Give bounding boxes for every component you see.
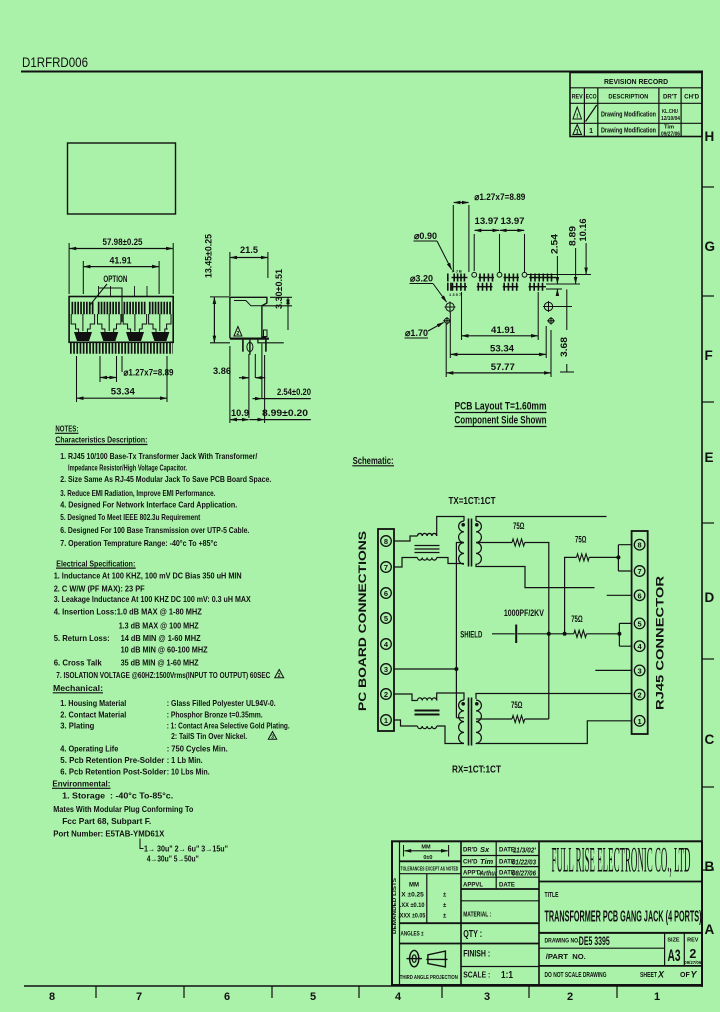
- svg-text:CH'D: CH'D: [684, 94, 699, 101]
- svg-text:7. ISOLATION VOLTAGE @60HZ:150: 7. ISOLATION VOLTAGE @60HZ:1500Vrms(INPU…: [56, 670, 270, 680]
- mounting holes right: [544, 302, 552, 310]
- dim 1.27x7 arrows: [100, 377, 116, 379]
- svg-text:APP'D: APP'D: [463, 871, 482, 877]
- transformer T1 secondary: [476, 521, 481, 564]
- port 4: [149, 308, 171, 341]
- title block frame: [392, 841, 702, 985]
- svg-text:75Ω: 75Ω: [571, 614, 583, 624]
- svg-text:1.3 dB MAX @ 100 MHZ: 1.3 dB MAX @ 100 MHZ: [119, 621, 199, 631]
- svg-text:Component Side Shown: Component Side Shown: [455, 415, 547, 427]
- svg-text:RJ45 CONNECTOR: RJ45 CONNECTOR: [655, 576, 667, 710]
- svg-text:6. Designed For 100 Base Trans: 6. Designed For 100 Base Transmission ov…: [60, 525, 249, 535]
- svg-text:11/3/02': 11/3/02': [513, 846, 536, 855]
- J2 pin 6: [634, 590, 645, 601]
- resistor R3 75ohm: [574, 630, 587, 637]
- svg-text:Tim: Tim: [664, 125, 674, 131]
- svg-text:Drawing Modification: Drawing Modification: [601, 128, 656, 135]
- svg-text:MM: MM: [421, 844, 431, 850]
- J2 pin 5: [634, 618, 645, 629]
- wire L1 to T1 primary top: [437, 517, 464, 537]
- plating legend: [140, 839, 144, 849]
- svg-text:2.54±0.20: 2.54±0.20: [277, 387, 311, 397]
- J1 pin 8: [381, 536, 392, 547]
- transformer T1 primary: [459, 521, 464, 564]
- pin field bottom row: [451, 286, 547, 288]
- svg-text:: Phosphor Bronze t=0.35mm.: : Phosphor Bronze t=0.35mm.: [167, 709, 263, 719]
- svg-text:1: 1: [589, 128, 593, 135]
- resistor R1 75ohm: [512, 539, 525, 546]
- svg-text:6: 6: [384, 589, 388, 598]
- transformer T2 secondary: [476, 700, 481, 743]
- svg-text:Drawing Modification: Drawing Modification: [601, 112, 656, 119]
- svg-text:10.16: 10.16: [578, 219, 588, 242]
- wire L2 to T2 primary top: [437, 693, 464, 701]
- shield pin extra marks left: [448, 274, 451, 291]
- svg-text:THIRD ANGLE PROJECTION: THIRD ANGLE PROJECTION: [400, 975, 458, 981]
- port 2: [98, 308, 121, 341]
- svg-text:: Glass Filled Polyester UL94V: : Glass Filled Polyester UL94V-0.: [167, 698, 276, 708]
- svg-text:57.77: 57.77: [491, 362, 515, 373]
- svg-text:REV: REV: [572, 94, 584, 101]
- body outline: [230, 297, 267, 337]
- svg-text:0±0: 0±0: [423, 855, 432, 861]
- svg-text:Fcc Part 68, Subpart F.: Fcc Part 68, Subpart F.: [62, 816, 151, 826]
- svg-text:1 3 5 7: 1 3 5 7: [449, 292, 462, 297]
- jack body outline: [69, 297, 173, 343]
- svg-text:1. Housing Material: 1. Housing Material: [60, 698, 126, 708]
- choke L2 core: [415, 711, 440, 715]
- svg-text:5. Designed To Meet IEEE 802.3: 5. Designed To Meet IEEE 802.3u Requirem…: [60, 512, 200, 522]
- svg-text:CH'D: CH'D: [463, 860, 478, 866]
- svg-text:DO NOT SCALE DRAWING: DO NOT SCALE DRAWING: [545, 972, 607, 979]
- svg-text:B: B: [705, 859, 715, 874]
- svg-text:2. Contact Material: 2. Contact Material: [60, 709, 126, 719]
- svg-text:1000PF/2KV: 1000PF/2KV: [504, 608, 544, 618]
- hole circles top row: [472, 272, 477, 277]
- svg-text:Tim: Tim: [480, 857, 494, 866]
- revision record table: [570, 73, 702, 138]
- svg-text:.XX ±0.10: .XX ±0.10: [400, 903, 425, 909]
- svg-text:6. Pcb Retention Post-Solder: 6. Pcb Retention Post-Solder: [60, 767, 167, 777]
- svg-text:8.99±0.20: 8.99±0.20: [262, 408, 308, 419]
- svg-text:75Ω: 75Ω: [511, 700, 523, 710]
- rev row 2: [573, 125, 582, 135]
- svg-text:09/27/06: 09/27/06: [661, 132, 680, 138]
- transformer T1 core: [469, 519, 472, 567]
- svg-text:Impedance Resistor/High Voltag: Impedance Resistor/High Voltage Capacito…: [68, 463, 187, 473]
- transformer T2 primary: [459, 700, 464, 743]
- choke L2 winding B: [418, 726, 437, 729]
- svg-text:RX=1CT:1CT: RX=1CT:1CT: [452, 764, 501, 776]
- svg-text:1: 1: [654, 991, 660, 1003]
- svg-text:DR'D: DR'D: [463, 848, 478, 854]
- empty rectangle top-left: [68, 143, 176, 214]
- svg-text:2: 2: [278, 673, 281, 679]
- svg-text:3.30±0.51: 3.30±0.51: [274, 269, 284, 309]
- svg-text:: 1: Contact Area Selective Go: : 1: Contact Area Selective Gold Plating…: [167, 721, 290, 731]
- svg-text:H: H: [705, 129, 715, 144]
- choke L2 winding A: [418, 698, 437, 701]
- pins row under body: [70, 342, 173, 354]
- svg-text:FULL RISE ELECTRONIC CO., LTD: FULL RISE ELECTRONIC CO., LTD: [552, 840, 691, 880]
- svg-text:75Ω: 75Ω: [575, 535, 587, 545]
- border zone ticks bottom: [96, 986, 617, 998]
- middle column row lines: [461, 855, 539, 857]
- svg-text:KL.CHU: KL.CHU: [662, 109, 678, 115]
- svg-text:/PART NO.: /PART NO.: [546, 954, 586, 961]
- svg-text:12/10/04: 12/10/04: [661, 116, 681, 122]
- svg-text:REVISION RECORD: REVISION RECORD: [604, 77, 669, 86]
- svg-text:⌀3.20: ⌀3.20: [410, 274, 433, 285]
- port 3: [123, 308, 146, 341]
- wire J1-3 to center tap node: [394, 668, 456, 670]
- warning triangle inside: [234, 327, 242, 337]
- svg-text:D: D: [705, 590, 715, 605]
- svg-text:4: 4: [395, 991, 402, 1003]
- svg-text:09/27/06: 09/27/06: [684, 960, 701, 965]
- svg-text:08/27/06: 08/27/06: [512, 869, 537, 878]
- svg-text:SIZE: SIZE: [667, 938, 680, 944]
- third angle projection symbol: [400, 950, 458, 981]
- svg-text:8: 8: [49, 991, 55, 1003]
- J1 pin 1: [381, 715, 392, 726]
- svg-text:7: 7: [384, 563, 388, 572]
- svg-text:5: 5: [384, 614, 388, 623]
- bottom thick line: [230, 338, 269, 340]
- svg-text:3.86: 3.86: [213, 366, 231, 376]
- svg-text:A: A: [705, 922, 715, 937]
- svg-text:FINISH :: FINISH :: [463, 949, 490, 959]
- svg-text:3: 3: [638, 666, 642, 675]
- wire L2 to T2 primary bottom: [437, 726, 464, 744]
- svg-text:.XXX ±0.05: .XXX ±0.05: [398, 913, 426, 919]
- svg-text:ANGLES ±: ANGLES ±: [401, 931, 425, 937]
- svg-text:DE5 3395: DE5 3395: [579, 934, 610, 948]
- svg-text:⌀1.70: ⌀1.70: [405, 328, 428, 339]
- svg-text:3.68: 3.68: [559, 337, 569, 357]
- svg-text:2.54: 2.54: [549, 234, 559, 254]
- wire J1-2 to L2: [394, 694, 418, 701]
- svg-text:DRAWING NO.: DRAWING NO.: [545, 939, 580, 945]
- wire J1-7 to L1: [394, 558, 418, 568]
- svg-text:APPVL: APPVL: [463, 883, 483, 889]
- wire T2 center tap: [456, 717, 464, 719]
- small post detail: [264, 330, 268, 337]
- svg-text:NOTES:: NOTES:: [55, 424, 78, 434]
- svg-text:A3: A3: [668, 946, 681, 965]
- left tolerance section lines: [400, 860, 462, 862]
- svg-text:Sx: Sx: [480, 845, 490, 854]
- svg-text:C: C: [705, 732, 715, 747]
- wire T2 secondary top to J2 pin 2: [476, 694, 632, 700]
- svg-text:⌀0.90: ⌀0.90: [414, 231, 437, 242]
- svg-text:7: 7: [136, 991, 142, 1003]
- svg-text:Y: Y: [691, 970, 698, 980]
- capacitor C1 1000PF/2KV: [515, 625, 517, 644]
- svg-text:DEMANDED LISTS: DEMANDED LISTS: [392, 878, 398, 934]
- svg-text:41.91: 41.91: [110, 256, 132, 266]
- wire R2 to J2 pins 8,7 bracket: [589, 545, 631, 571]
- svg-text:E: E: [705, 450, 714, 465]
- J1 pin 5: [381, 613, 392, 624]
- svg-text:21.5: 21.5: [240, 245, 258, 255]
- svg-text:Port Number: E5TAB-YMD61X: Port Number: E5TAB-YMD61X: [53, 829, 164, 839]
- svg-text:10.9: 10.9: [231, 408, 249, 418]
- wire shield bus: [518, 633, 574, 635]
- wire shield lead: [492, 633, 515, 635]
- svg-text:10 dB MIN @ 60-100 MHZ: 10 dB MIN @ 60-100 MHZ: [121, 645, 208, 655]
- right side ext lines: [527, 274, 591, 276]
- J1 pin 7: [381, 562, 392, 573]
- border zone ticks right: [702, 187, 714, 870]
- notes text block: [52, 424, 290, 864]
- wire T1 secondary center to R1: [476, 542, 512, 544]
- border zone numbers bottom: [49, 991, 660, 1003]
- junction center tap / pin3: [454, 667, 458, 671]
- svg-text:SHIELD: SHIELD: [460, 630, 482, 640]
- svg-text:35 dB MIN @ 1-60 MHZ: 35 dB MIN @ 1-60 MHZ: [121, 657, 199, 667]
- wire T1 secondary top long: [476, 517, 607, 522]
- pin extension ticks above body: [99, 286, 148, 296]
- svg-text:PC BOARD CONNECTIONS: PC BOARD CONNECTIONS: [357, 531, 369, 711]
- svg-text:3: 3: [271, 734, 274, 740]
- svg-text:1:1: 1:1: [501, 969, 513, 981]
- svg-text:1.0 dB MAX @ 1-80 MHZ: 1.0 dB MAX @ 1-80 MHZ: [117, 607, 202, 617]
- rev row 1: [573, 107, 582, 119]
- svg-text:SHEET: SHEET: [640, 972, 658, 979]
- svg-text:2: 2: [689, 947, 696, 961]
- choke L1 winding A: [418, 533, 437, 536]
- svg-text:1. RJ45 10/100 Base-Tx Transfo: 1. RJ45 10/100 Base-Tx Transformer Jack …: [60, 451, 258, 461]
- J2 pin 4: [634, 641, 645, 652]
- front view: 4-port jack: [69, 237, 173, 402]
- right border line: [701, 71, 703, 987]
- svg-text:7. Operation Temprature Range:: 7. Operation Temprature Range: -40°c To …: [60, 538, 217, 548]
- svg-text:3: 3: [384, 665, 388, 674]
- svg-text:8: 8: [638, 541, 642, 550]
- choke L1 winding B: [418, 558, 437, 561]
- svg-text:Electrical Specification:: Electrical Specification:: [56, 558, 135, 568]
- svg-text:TITLE: TITLE: [545, 890, 559, 899]
- svg-text:5: 5: [638, 619, 642, 628]
- svg-text:QTY :: QTY :: [463, 929, 482, 940]
- svg-text:2: TailS Tin Over Nickel.: 2: TailS Tin Over Nickel.: [171, 731, 247, 741]
- svg-text:2. Size Same As RJ-45 Modular: 2. Size Same As RJ-45 Modular Jack To Sa…: [60, 474, 271, 484]
- svg-text:X: X: [657, 970, 665, 980]
- svg-text:DESCRIPTION: DESCRIPTION: [608, 94, 648, 101]
- svg-text:1. Storage : -40°c To-85°c.: 1. Storage : -40°c To-85°c.: [62, 791, 173, 801]
- svg-text:6: 6: [638, 591, 642, 600]
- stub J2 pin 6: [607, 594, 632, 596]
- svg-text:5: 5: [310, 991, 316, 1003]
- wire T1 secondary bottom: [476, 564, 595, 588]
- J2 pin 8: [634, 539, 645, 550]
- svg-text:53.34: 53.34: [490, 344, 515, 355]
- svg-text:MM: MM: [409, 883, 419, 889]
- svg-text:6: 6: [224, 991, 230, 1003]
- tolerance table: [398, 883, 447, 938]
- side view: [204, 234, 312, 423]
- J1 pin 3: [381, 664, 392, 675]
- wire T1 center tap down: [456, 543, 464, 718]
- svg-text:3. Leakage Inductance At 100 K: 3. Leakage Inductance At 100 KHZ DC 100 …: [54, 594, 251, 604]
- svg-text:53.34: 53.34: [111, 387, 136, 398]
- svg-text:6. Cross Talk: 6. Cross Talk: [54, 657, 102, 667]
- wire T2 secondary center to R4: [476, 718, 512, 720]
- choke L1 core: [415, 546, 440, 553]
- svg-text:2: 2: [638, 691, 642, 700]
- svg-text:MATERIAL :: MATERIAL :: [463, 910, 491, 919]
- svg-text:1: 1: [384, 716, 388, 725]
- svg-text:01/22/03: 01/22/03: [512, 858, 537, 867]
- svg-text:⌀1.27x7=8.89: ⌀1.27x7=8.89: [124, 368, 174, 379]
- tolerance arrows icon: [404, 844, 449, 861]
- pcb layout drawing: [405, 192, 592, 427]
- svg-text:: 10 Lbs Min.: : 10 Lbs Min.: [167, 767, 210, 777]
- mounting holes left: [446, 303, 454, 311]
- svg-text:13.97: 13.97: [475, 216, 499, 227]
- svg-text:Mates With Modular Plug Confor: Mates With Modular Plug Conforming To: [53, 804, 193, 814]
- svg-text:5. Return Loss:: 5. Return Loss:: [54, 633, 110, 643]
- transformer T2 core: [469, 698, 472, 746]
- svg-text:4→30u" 5→50u": 4→30u" 5→50u": [147, 855, 199, 864]
- svg-text:4. Designed For Network Interf: 4. Designed For Network Interface Card A…: [60, 499, 237, 509]
- svg-text:!: !: [576, 114, 578, 120]
- svg-text:TRANSFORMER PCB GANG JACK (4 P: TRANSFORMER PCB GANG JACK (4 PORTS): [545, 909, 702, 926]
- svg-text:14 dB MIN @ 1-60 MHZ: 14 dB MIN @ 1-60 MHZ: [121, 633, 201, 643]
- J2 pin 7: [634, 566, 645, 577]
- svg-text:⌀1.27x7=8.89: ⌀1.27x7=8.89: [474, 192, 525, 203]
- bottom dims: [76, 356, 78, 402]
- svg-text:DR'T: DR'T: [663, 94, 677, 101]
- svg-text:Mechanical:: Mechanical:: [53, 683, 103, 693]
- svg-text:7: 7: [638, 567, 642, 576]
- svg-text:13.97: 13.97: [501, 216, 525, 227]
- svg-text:2: 2: [567, 991, 573, 1003]
- wire R3 to J2 pins 5,4 bracket: [587, 623, 632, 646]
- top border line: [21, 71, 703, 73]
- svg-text:TOLERANCES EXCEPT AS NOTED: TOLERANCES EXCEPT AS NOTED: [401, 866, 459, 872]
- svg-text:D1RFRD006: D1RFRD006: [22, 54, 88, 70]
- svg-text:2: 2: [237, 331, 240, 337]
- svg-text:G: G: [705, 239, 716, 254]
- company section lines: [539, 881, 702, 883]
- svg-text:4. Operating Life: 4. Operating Life: [60, 744, 118, 754]
- wire R1 to shield bus: [525, 543, 549, 720]
- svg-text:3. Plating: 3. Plating: [60, 721, 94, 731]
- svg-text:Arthur: Arthur: [479, 869, 498, 878]
- J2 pin 1: [634, 716, 645, 727]
- svg-text:PCB Layout T=1.60mm: PCB Layout T=1.60mm: [455, 401, 547, 413]
- svg-text:8: 8: [384, 537, 388, 546]
- svg-text:TX=1CT:1CT: TX=1CT:1CT: [449, 495, 496, 507]
- stub J2 pin 3: [595, 669, 631, 671]
- svg-text:X ±0.25: X ±0.25: [401, 892, 424, 898]
- connector J2 RJ45 box: [632, 531, 648, 734]
- svg-text:: 1 Lb Min.: : 1 Lb Min.: [167, 755, 203, 765]
- svg-text:3. Reduce EMI Radiation, Impro: 3. Reduce EMI Radiation, Improve EMI Per…: [60, 488, 215, 498]
- wire R4 to shield bus: [525, 718, 549, 720]
- wire J1-8 to L1: [394, 536, 418, 541]
- svg-text:REV: REV: [687, 938, 699, 944]
- svg-text:SCALE :: SCALE :: [463, 970, 490, 980]
- wire L1 to T1 primary bottom: [437, 558, 464, 564]
- resistor R4 75ohm: [512, 716, 525, 723]
- J2 pin 3: [634, 665, 645, 676]
- wire J1-1 to L2: [394, 720, 418, 726]
- connector J1 PC board box: [378, 529, 394, 731]
- flange step right: [258, 339, 284, 343]
- svg-text:1: 1: [638, 717, 642, 726]
- J1 pin 6: [381, 588, 392, 599]
- svg-text:5. Pcb Retention Pre-Solder: 5. Pcb Retention Pre-Solder: [60, 755, 165, 765]
- svg-text:Environmental:: Environmental:: [52, 779, 110, 789]
- J1 pin 4: [381, 639, 392, 650]
- resistor R2 75ohm: [565, 557, 577, 633]
- port 1: [71, 308, 94, 341]
- pin field top row: [452, 277, 557, 279]
- svg-text:Characteristics Description:: Characteristics Description:: [55, 435, 147, 445]
- svg-text:41.91: 41.91: [491, 325, 516, 336]
- pins below: [242, 340, 244, 352]
- svg-text:DATE: DATE: [499, 883, 515, 889]
- approval rows: [463, 848, 515, 889]
- svg-text:F J B: F J B: [452, 269, 462, 274]
- J2 pin 2: [634, 689, 645, 700]
- svg-text:ECO: ECO: [586, 94, 597, 101]
- T2 phase dots: [461, 702, 465, 706]
- svg-text:57.98±0.25: 57.98±0.25: [103, 237, 143, 247]
- svg-text:2: 2: [384, 690, 388, 699]
- svg-text:2. C W/W (PF MAX): 23 PF: 2. C W/W (PF MAX): 23 PF: [54, 584, 145, 594]
- wire T2 secondary bottom to J2 pin 1: [476, 721, 632, 744]
- svg-text:OPTION: OPTION: [103, 274, 127, 284]
- svg-text:8.89: 8.89: [568, 226, 578, 246]
- border zone letters right: [705, 129, 716, 937]
- svg-text:3: 3: [484, 991, 490, 1003]
- bottom border line: [24, 985, 703, 987]
- T1 phase dots: [461, 523, 465, 527]
- J1 pin 2: [381, 689, 392, 700]
- svg-text:: 750 Cycles Min.: : 750 Cycles Min.: [167, 744, 228, 754]
- svg-text:1→ 30u" 2→ 6u" 3→15u": 1→ 30u" 2→ 6u" 3→15u": [144, 845, 228, 854]
- svg-text:13.45±0.25: 13.45±0.25: [204, 234, 214, 278]
- svg-text:1. Inductance At 100 KHZ, 100: 1. Inductance At 100 KHZ, 100 mV DC Bias…: [54, 570, 242, 580]
- svg-text:OF: OF: [680, 972, 690, 979]
- svg-text:F: F: [705, 348, 713, 363]
- svg-text:75Ω: 75Ω: [513, 521, 525, 531]
- svg-text:4. Insertion Loss:: 4. Insertion Loss:: [54, 607, 117, 617]
